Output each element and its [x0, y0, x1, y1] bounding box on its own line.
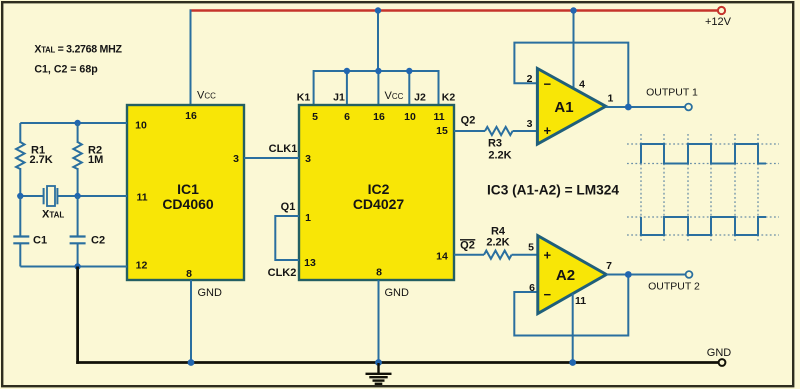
waveform dashed grid verticals: [641, 134, 758, 243]
svg-text:R3: R3: [488, 138, 502, 150]
resistor R1: [16, 142, 24, 169]
wire left rail R1 to xtal node: [19, 168, 21, 196]
svg-text:−: −: [544, 77, 552, 92]
svg-text:14: 14: [436, 251, 448, 263]
svg-text:16: 16: [373, 111, 385, 123]
wire CLK1 IC1 pin3 to IC2 pin3: [244, 157, 299, 159]
wire IC1 pin11 / xtal horizontal: [20, 195, 43, 197]
wire C2 to bottom wire: [77, 243, 79, 266]
svg-text:7: 7: [606, 260, 612, 272]
svg-text:VCC: VCC: [197, 90, 216, 102]
svg-text:4: 4: [579, 78, 585, 90]
capacitor C1: [13, 235, 29, 237]
terminal +12V: [718, 7, 725, 14]
wire Q2 from IC2 pin15: [454, 130, 485, 132]
svg-text:C1, C2 = 68p: C1, C2 = 68p: [34, 63, 98, 75]
svg-text:+12V: +12V: [705, 16, 732, 28]
svg-text:1M: 1M: [88, 154, 103, 166]
terminal OUTPUT 2: [686, 271, 693, 278]
node junction A2 output / feedback: [625, 271, 632, 278]
svg-text:+: +: [544, 248, 552, 263]
wire A2 pin11 vertical: [572, 294, 574, 363]
svg-text:3: 3: [305, 153, 311, 165]
svg-text:IC2: IC2: [368, 181, 390, 197]
waveform square wave 2: [641, 217, 766, 235]
svg-text:A2: A2: [556, 267, 575, 284]
svg-text:6: 6: [529, 282, 535, 294]
svg-text:CLK1: CLK1: [269, 143, 298, 155]
svg-text:Q2: Q2: [461, 115, 476, 127]
resistor R4: [484, 251, 512, 259]
wire IC2 Vcc vertical: [377, 11, 379, 72]
svg-text:11: 11: [136, 192, 147, 204]
svg-text:8: 8: [186, 268, 192, 280]
svg-text:K2: K2: [442, 92, 456, 104]
svg-text:XTAL = 3.2768 MHZ: XTAL = 3.2768 MHZ: [34, 44, 122, 56]
op-amp A2: [538, 236, 607, 314]
svg-text:GND: GND: [707, 347, 732, 359]
svg-text:5: 5: [312, 111, 318, 123]
wire IC2 pin10 stub: [408, 71, 410, 105]
node junction red rail / A1 pin4: [570, 7, 576, 13]
node junction A1 output / feedback: [625, 104, 632, 111]
svg-text:XTAL: XTAL: [42, 209, 64, 221]
wire Q2bar from IC2 pin14: [454, 254, 484, 256]
ground symbol: [366, 363, 392, 384]
IC2 CD4027: [299, 105, 454, 280]
wire Q1 to CLK2 loop: [275, 216, 299, 260]
svg-text:GND: GND: [198, 287, 223, 299]
svg-text:3: 3: [233, 153, 239, 165]
wire R4 to A2 pin5: [512, 254, 539, 256]
wire IC2 top bus: [314, 71, 439, 105]
wire IC1 pin10 horizontal: [20, 122, 127, 124]
svg-text:J2: J2: [414, 92, 426, 104]
waveform dashed grid horizontal wave1 low: [627, 163, 779, 165]
op-amp A1: [537, 69, 605, 145]
node junction pin12 wire / black ground drop: [74, 263, 80, 269]
svg-text:C1: C1: [33, 235, 47, 247]
svg-text:IC1: IC1: [177, 181, 199, 197]
wire A2 pin6 feedback loop: [514, 275, 628, 336]
svg-text:2.2K: 2.2K: [488, 150, 511, 162]
svg-text:VCC: VCC: [385, 90, 404, 102]
wire IC2 pin6 stub: [346, 71, 348, 105]
wire C1 to bottom wire: [19, 243, 21, 266]
wire A1 output: [606, 106, 685, 108]
svg-text:12: 12: [136, 260, 148, 272]
wire IC1 Vcc stub: [190, 10, 192, 106]
wire black ground rail: [76, 361, 718, 364]
svg-text:CD4027: CD4027: [353, 196, 405, 212]
node junction ground rail / A2 pin11: [569, 359, 576, 366]
svg-text:10: 10: [404, 111, 416, 123]
wire left rail to C1: [19, 196, 21, 237]
svg-text:IC3 (A1-A2) = LM324: IC3 (A1-A2) = LM324: [487, 183, 619, 198]
capacitor C2: [70, 235, 86, 237]
svg-text:CD4060: CD4060: [162, 196, 214, 212]
node junction xtal wire / left rail: [17, 193, 23, 199]
svg-text:11: 11: [433, 111, 444, 123]
node junction bus pin16: [375, 68, 381, 74]
svg-text:2.2K: 2.2K: [486, 237, 509, 249]
svg-text:A1: A1: [554, 99, 573, 116]
wire +12V red rail: [190, 9, 718, 11]
svg-text:2: 2: [527, 73, 533, 85]
svg-text:Q2: Q2: [460, 240, 475, 252]
node junction red rail / IC2 Vcc: [375, 7, 381, 13]
node junction xtal wire / R2 rail: [74, 193, 80, 199]
svg-text:5: 5: [528, 242, 534, 254]
svg-text:8: 8: [376, 267, 382, 279]
wire A1 pin2 feedback loop: [514, 43, 628, 107]
wire IC1 GND stub: [190, 280, 192, 363]
svg-text:−: −: [544, 287, 552, 302]
terminal GND: [719, 359, 726, 366]
resistor R3: [485, 127, 513, 135]
svg-text:OUTPUT 2: OUTPUT 2: [648, 281, 700, 293]
svg-text:16: 16: [185, 110, 197, 122]
wire IC1 pin12 horizontal: [20, 266, 127, 268]
svg-text:13: 13: [304, 257, 316, 269]
terminal OUTPUT 1: [685, 104, 692, 111]
waveform square wave 1: [641, 144, 766, 164]
svg-text:10: 10: [135, 120, 147, 132]
svg-text:C2: C2: [91, 235, 105, 247]
wire R2 rail to C2: [77, 196, 79, 237]
node junction bus pin10: [406, 68, 412, 74]
wire A1 pin4 vertical: [573, 11, 575, 90]
IC1 CD4060: [127, 105, 244, 280]
node junction pin10 wire / R2 rail: [74, 120, 80, 126]
svg-text:OUTPUT 1: OUTPUT 1: [646, 87, 698, 99]
svg-text:+: +: [544, 123, 552, 138]
resistor R2: [77, 123, 79, 143]
node junction ground rail / IC2 GND: [375, 359, 382, 366]
svg-text:K1: K1: [297, 92, 311, 104]
wire R2 rail to xtal node: [77, 168, 79, 196]
svg-text:GND: GND: [385, 287, 410, 299]
svg-text:1: 1: [607, 93, 613, 105]
wire black ground drop from left circuit: [76, 267, 79, 364]
wire A2 output: [606, 274, 685, 276]
svg-text:1: 1: [305, 212, 311, 224]
svg-text:J1: J1: [333, 92, 345, 104]
wire IC2 pin16 stub: [377, 71, 379, 105]
node junction bus pin6: [344, 68, 350, 74]
svg-text:15: 15: [436, 125, 448, 137]
wire R3 to A1 pin3: [513, 130, 539, 132]
svg-text:CLK2: CLK2: [268, 267, 297, 279]
wire left rail upper (R1 branch): [19, 123, 21, 143]
waveform dashed grid horizontal wave2 low: [627, 234, 779, 236]
svg-text:3: 3: [527, 118, 533, 130]
crystal XTAL: [43, 188, 45, 204]
svg-text:2.7K: 2.7K: [30, 154, 53, 166]
node junction ground rail / IC1 GND: [188, 359, 195, 366]
svg-text:11: 11: [575, 295, 586, 307]
waveform dashed grid horizontal wave1 high: [627, 143, 779, 145]
wire IC2 GND stub: [378, 280, 380, 363]
svg-text:6: 6: [344, 111, 350, 123]
waveform dashed grid horizontal wave2 high: [627, 216, 779, 218]
svg-text:Q1: Q1: [281, 201, 296, 213]
